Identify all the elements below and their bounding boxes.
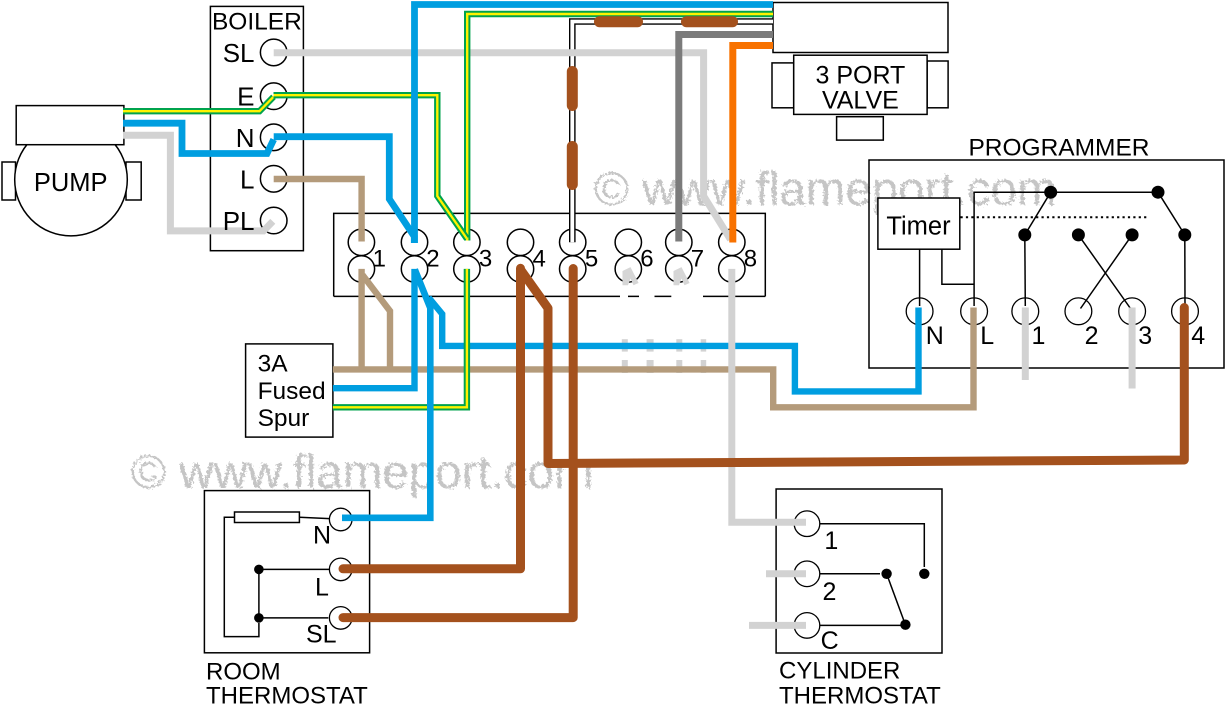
wire resistor loop [224, 517, 259, 636]
junction terminal 4 [507, 229, 546, 282]
node switch common left [1044, 186, 1057, 199]
wire junction 1 to fused spur join (tan) [358, 269, 364, 370]
boiler terminal N [236, 123, 287, 153]
3 port valve left tab [772, 63, 794, 108]
room thermostat label [206, 659, 368, 706]
wire pump to boiler PL (grey) [123, 135, 273, 231]
wire junction 3 to fused spur (earth) [333, 269, 467, 407]
junction terminal 1 [348, 229, 386, 282]
programmer terminal 4 [1172, 298, 1206, 350]
node cyl bottom [900, 620, 910, 630]
wire boiler N to junction 2 (blue) [274, 137, 415, 243]
wire L to switch common [974, 192, 1051, 306]
3 port valve bottom tab [837, 117, 884, 140]
junction terminal 7 [666, 229, 705, 282]
3 port valve wiring box [773, 3, 948, 53]
3 port valve body [794, 55, 927, 114]
grey mark in junction 6 [623, 267, 639, 285]
wire pump to boiler E (earth) [123, 97, 274, 111]
svg-text:Timer: Timer [886, 212, 951, 240]
svg-text:C: C [821, 627, 839, 655]
wire junction 8 to cylinder 1 (grey) [732, 269, 806, 522]
switch arm cyl [887, 574, 906, 625]
grey mark in junction 7 [674, 267, 690, 285]
svg-text:PROGRAMMER: PROGRAMMER [968, 134, 1149, 161]
svg-text:Fused: Fused [258, 378, 326, 405]
svg-text:L: L [240, 164, 254, 194]
wire boiler SL to junction 8 (grey) [274, 53, 731, 240]
wire timer to N [919, 249, 921, 306]
room terminal N [313, 508, 352, 549]
programmer label [968, 134, 1149, 161]
node above terminal 4 [1178, 228, 1191, 241]
svg-text:5: 5 [585, 246, 598, 273]
switch bus link [1051, 191, 1158, 193]
svg-text:BOILER: BOILER [212, 9, 302, 36]
boiler terminal E [237, 82, 287, 112]
svg-text:E: E [237, 82, 254, 112]
svg-text:1: 1 [373, 246, 386, 273]
svg-text:4: 4 [533, 246, 546, 273]
svg-text:6: 6 [640, 246, 653, 273]
boiler terminal PL label [223, 206, 255, 236]
programmer terminal L [961, 298, 995, 350]
svg-text:3 PORT: 3 PORT [815, 61, 905, 89]
svg-text:3: 3 [479, 246, 492, 273]
svg-text:1: 1 [1032, 322, 1046, 350]
brown sleeve on white wire 2 [681, 16, 738, 27]
wire junction 1 diagonal (tan) [363, 275, 391, 369]
svg-text:N: N [926, 322, 944, 350]
node above terminal 2 [1072, 228, 1085, 241]
svg-text:SL: SL [223, 38, 255, 68]
junction terminal 6 [615, 229, 654, 282]
wire node to L [259, 568, 330, 570]
wire node to SL [259, 617, 328, 619]
wire cylinder C stub (grey) [749, 622, 806, 629]
svg-text:7: 7 [691, 246, 704, 273]
3 port valve label [815, 61, 905, 114]
programmer terminal 1 [1012, 298, 1046, 350]
wire valve to junction 8 (orange) [733, 46, 773, 243]
cylinder thermostat label [779, 658, 941, 706]
svg-text:PL: PL [223, 206, 255, 236]
programmer terminal 3 [1119, 298, 1153, 350]
wire junction 4 to programmer 4 (brown) [522, 271, 1185, 464]
cylinder terminal C [794, 613, 838, 655]
wire junction 4 to room stat L (brown) [343, 268, 521, 569]
svg-text:Spur: Spur [258, 405, 310, 432]
wire junction 2 to room stat N (blue) [342, 270, 430, 518]
room terminal L [315, 558, 352, 601]
junction box [334, 213, 766, 296]
pump terminal housing [16, 106, 124, 145]
boiler box [210, 6, 303, 250]
room thermostat box [204, 491, 369, 653]
svg-text:PUMP: PUMP [34, 169, 108, 197]
wire programmer 3 to node 2 [1078, 235, 1130, 309]
brown sleeve on white wire 3 [567, 66, 578, 111]
wire valve white to junction 5 (outline) [572, 22, 773, 243]
grey tick marks on blue wire [622, 339, 706, 351]
node room SL [254, 613, 264, 623]
boiler terminal SL [223, 38, 287, 68]
junction terminal 2 [401, 229, 439, 282]
wire cyl 1 to node [820, 524, 925, 567]
wire resistor to N [299, 517, 329, 518]
svg-text:VALVE: VALVE [822, 86, 899, 114]
wire cyl 2 to node [820, 573, 880, 575]
node switch common right [1152, 186, 1165, 199]
cylinder terminal 1 [794, 511, 838, 555]
wire fused spur to programmer L (tan) [333, 308, 974, 408]
brown sleeve on white wire 4 [567, 141, 578, 190]
wire node to node [258, 569, 260, 618]
fused spur FS1 [246, 344, 333, 437]
programmer box [869, 160, 1224, 368]
dotted link line [961, 216, 1148, 218]
cylinder thermostat box [776, 489, 942, 653]
switch arm 2 [1158, 192, 1185, 235]
pump right port [126, 162, 141, 200]
wire programmer 2 to node 3 [1081, 235, 1133, 309]
svg-text:2: 2 [426, 246, 439, 273]
svg-text:N: N [236, 123, 255, 153]
svg-text:SL: SL [306, 621, 337, 649]
wire valve to junction 2 (blue) [415, 5, 774, 244]
pump left port [2, 162, 16, 200]
svg-text:8: 8 [744, 246, 757, 273]
wire programmer 1 stub (grey) [1022, 308, 1029, 381]
svg-text:4: 4 [1191, 322, 1205, 350]
wire timer to L [942, 249, 974, 284]
svg-text:THERMOSTAT: THERMOSTAT [206, 682, 368, 706]
node room L [254, 565, 264, 575]
timer U1 [878, 198, 960, 249]
wire cylinder 2 stub (grey) [766, 570, 806, 577]
wire node to programmer 1 [1024, 235, 1027, 306]
brown sleeve on white wire 1 [594, 16, 643, 27]
wire valve to junction 7 (dark grey) [679, 35, 773, 242]
wire cyl C to node [820, 624, 906, 626]
wire node to programmer 4 [1184, 235, 1186, 305]
junction terminal 3 [454, 229, 493, 282]
svg-text:L: L [980, 322, 994, 350]
junction terminal 8 [719, 229, 758, 282]
svg-text:1: 1 [824, 527, 838, 555]
resistor (anticipator) [235, 512, 300, 523]
wire room stat SL to junction 5 (brown) [343, 269, 573, 618]
svg-text:N: N [313, 522, 331, 550]
wire junction 2 to fused spur (blue) [333, 269, 415, 388]
svg-text:2: 2 [1085, 322, 1099, 350]
wire programmer 3 stub (grey) [1129, 308, 1136, 389]
node cyl right [919, 569, 929, 579]
svg-text:3A: 3A [258, 351, 289, 378]
pump body [15, 123, 128, 236]
svg-text:© www.flameport.com: © www.flameport.com [594, 163, 1057, 216]
svg-text:THERMOSTAT: THERMOSTAT [779, 683, 941, 706]
wire valve to junction 3 (earth) [467, 14, 773, 241]
WATERMARKS [131, 163, 1057, 499]
pump label [34, 169, 108, 197]
svg-text:3: 3 [1138, 322, 1152, 350]
svg-text:L: L [315, 574, 329, 602]
junction terminal 5 [560, 229, 599, 282]
node above terminal 1 [1018, 228, 1031, 241]
node cyl mid [881, 569, 891, 579]
3 port valve right tab [927, 61, 948, 108]
wire pump to boiler N (blue) [123, 123, 274, 153]
room terminal SL [306, 607, 352, 649]
svg-text:2: 2 [823, 578, 837, 606]
boiler label [212, 9, 302, 36]
programmer terminal N [906, 298, 944, 350]
wire boiler E to junction 3 (earth) [274, 95, 467, 238]
programmer terminal 2 [1065, 298, 1099, 350]
wire boiler L to junction 1 (tan) [274, 179, 362, 242]
wire junction 2 to programmer N (blue) [429, 298, 919, 392]
grey tick marks on tan wire [622, 360, 706, 373]
cylinder terminal 2 [794, 561, 836, 606]
switch arm 1 [1025, 192, 1051, 235]
boiler terminal PL [260, 207, 287, 234]
boiler terminal L [240, 164, 287, 194]
OVERLAY MARKS [623, 267, 690, 285]
svg-text:CYLINDER: CYLINDER [779, 658, 900, 685]
node above terminal 3 [1126, 228, 1139, 241]
